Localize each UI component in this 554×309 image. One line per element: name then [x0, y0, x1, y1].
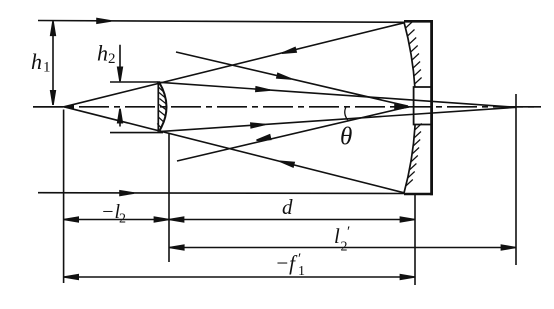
tick: top reference line of h2 [110, 81, 160, 83]
svg-text:2: 2 [108, 51, 116, 67]
svg-text:−f: −f [275, 251, 298, 275]
svg-text:h: h [31, 49, 42, 74]
primary mirror M1 bottom edge [404, 193, 433, 196]
arrow d left [170, 217, 184, 222]
dimension h1 vertical double arrow line [52, 22, 54, 106]
arrow on lower reflected ray [279, 159, 294, 167]
svg-text:−l: −l [101, 201, 120, 223]
primary mirror M1 hatching lower [406, 124, 422, 187]
extension line below primary mirror [414, 195, 416, 285]
arrow h2 up [118, 109, 123, 123]
arrow l2' right [501, 245, 515, 250]
ray: bottom incoming marginal ray [38, 192, 404, 195]
dimension line row1 (-l2 and d) [64, 219, 415, 221]
svg-text:l: l [334, 224, 340, 248]
ray: reflected lower ray from primary bottom to focus F1' [64, 107, 404, 193]
ray: top incoming marginal ray [38, 21, 404, 23]
arrow -l2 left [64, 217, 78, 222]
arrow h1 up [51, 21, 56, 35]
secondary mirror M2 convex surface [159, 82, 167, 132]
primary mirror M1 concave surface lower part [404, 124, 415, 193]
angle theta arc [345, 107, 348, 120]
tick: bottom reference line at secondary bottom [110, 132, 163, 134]
dimension h2 vertical line [119, 45, 121, 127]
arrow -l2 right [154, 217, 168, 222]
arrow h2 down [118, 67, 123, 81]
svg-text:′: ′ [347, 224, 350, 240]
svg-text:1: 1 [43, 60, 51, 76]
arrow -f1' left [64, 275, 78, 280]
arrow on upper final ray [256, 87, 270, 93]
arrow l2' left [170, 245, 184, 250]
primary mirror M1 central hole outline [414, 87, 432, 125]
primary mirror M1 right edge [430, 20, 433, 195]
arrow -f1' right [400, 275, 414, 280]
wire: solid right end of axis past focal plane [510, 106, 539, 108]
ray: lower ray from secondary to final focus [160, 107, 517, 131]
svg-text:θ: θ [340, 124, 352, 151]
arrow: axial bundle arrow near primary vertex [395, 105, 409, 110]
arrow on reflected chief ray [256, 135, 271, 143]
primary mirror M1 hatching upper [406, 22, 422, 85]
wire: solid left part of axis near focus F1' [33, 106, 66, 108]
label h1 [31, 49, 51, 76]
secondary mirror M2 back flat [157, 82, 159, 132]
focal plane vertical line at final image [515, 94, 517, 265]
label -f1' [275, 251, 305, 279]
arrow on upper reflected ray [281, 48, 296, 56]
primary mirror M1 top edge [404, 20, 433, 23]
secondary mirror M2 hatching [157, 82, 167, 129]
ray: upper ray from secondary to final focus [160, 82, 517, 107]
arrow on lower final ray [251, 122, 265, 128]
extension line below secondary mirror [168, 133, 170, 262]
dimension line row2 (l2') [169, 247, 516, 249]
extension line below focus F1' [63, 110, 65, 284]
svg-text:h: h [97, 41, 108, 66]
optical axis (dash-dot centerline) [33, 106, 541, 108]
svg-text:2: 2 [341, 240, 348, 255]
arrow on bottom incoming ray [120, 191, 134, 196]
arrow h1 down [51, 91, 56, 105]
svg-text:2: 2 [119, 212, 126, 227]
arrow on top incoming ray [97, 19, 111, 24]
ray: oblique chief ray reflected from primary vertex [177, 107, 408, 161]
primary mirror M1 concave surface upper part [404, 22, 415, 88]
label h2 [97, 41, 116, 68]
arrow d right [400, 217, 414, 222]
ray: oblique chief ray incoming at field angle [176, 52, 408, 106]
svg-text:1: 1 [298, 264, 305, 279]
label -l2 [101, 201, 126, 227]
label l2' [334, 224, 350, 255]
ray: reflected upper ray from primary top to focus F1' [64, 23, 404, 107]
svg-text:d: d [282, 195, 293, 219]
arrow on incoming chief ray [277, 73, 292, 81]
node F1' wedge fill at left focus [64, 104, 74, 109]
dimension line row3 (-f1') [64, 276, 415, 278]
